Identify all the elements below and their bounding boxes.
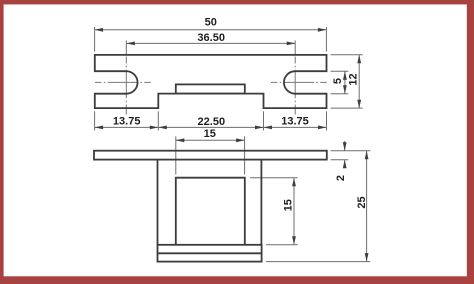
extension lines group — [95, 27, 371, 262]
front view inner box — [176, 178, 245, 245]
front view left wall — [157, 160, 159, 245]
bottom row extension x263.5 — [263, 111, 265, 130]
svg-text:25: 25 — [356, 196, 368, 208]
bottom row extension x94.6 — [94, 111, 96, 130]
dim 15 right extension bottom — [266, 244, 298, 246]
svg-text:13.75: 13.75 — [113, 115, 141, 127]
centerline right slot vertical — [294, 57, 296, 115]
dim 25 extension bottom — [266, 261, 370, 263]
bottom row extension x158.3 — [157, 111, 159, 130]
dim 2 and 25 extension top — [331, 150, 371, 152]
dimension texts rotated — [283, 73, 368, 211]
dim line 36.50 — [126, 42, 295, 44]
front view base block — [158, 245, 262, 262]
top view boss rectangle — [176, 84, 245, 93]
dim line 25 — [366, 151, 368, 262]
top view part outline with slots — [95, 55, 327, 108]
arrows dim 15 top view — [176, 138, 185, 142]
dim 12 extension top — [331, 54, 363, 56]
centerline right slot horizontal — [271, 81, 327, 83]
svg-text:22.50: 22.50 — [198, 116, 226, 128]
svg-text:2: 2 — [335, 175, 347, 181]
dim 50 extension left — [94, 27, 96, 52]
dimension lines group — [95, 30, 367, 262]
front view base mid line — [158, 252, 262, 254]
dim 2 extension bottom — [331, 159, 349, 161]
arrows dim 25 — [365, 151, 369, 160]
arrows dim 13.75 right — [264, 126, 273, 130]
dim line 2 tails — [344, 141, 346, 151]
centerline left slot horizontal — [95, 81, 151, 83]
dim 15 right extension top — [250, 177, 298, 179]
front view right wall — [260, 160, 262, 245]
dim line 12 — [358, 55, 360, 108]
arrows dim 22.50 — [158, 126, 167, 130]
dim line 13.75 / 22.50 / 13.75 — [95, 126, 327, 128]
dim 50 extension right — [325, 27, 327, 52]
svg-text:15: 15 — [283, 199, 295, 211]
dimension texts horizontal — [113, 16, 309, 140]
svg-text:5: 5 — [332, 78, 344, 84]
arrows dim 13.75 left — [95, 126, 104, 130]
dim 5 extension top — [331, 70, 349, 72]
dim 15 extension right — [244, 136, 246, 174]
centerlines group — [95, 57, 327, 115]
arrows dim 5 — [343, 71, 347, 80]
arrowheads group — [95, 28, 369, 262]
dim 15 extension left — [175, 136, 177, 174]
dim line 15 right — [293, 178, 295, 245]
svg-text:12: 12 — [348, 73, 360, 85]
svg-text:50: 50 — [205, 16, 217, 28]
arrows dim 15 right — [292, 178, 296, 187]
dim 36.50 extension left — [125, 41, 127, 56]
front view outline — [94, 151, 327, 262]
svg-text:15: 15 — [204, 128, 216, 140]
dim 12 extension bottom — [331, 107, 363, 109]
top view outline — [95, 55, 327, 108]
dim line 50 — [95, 29, 327, 31]
arrows dim 12 — [357, 55, 361, 64]
arrows dim 36.50 — [126, 42, 135, 46]
dim 5 extension bottom — [331, 93, 349, 95]
front view top plate — [94, 151, 327, 160]
bottom row extension x326.5 — [326, 111, 328, 130]
svg-text:13.75: 13.75 — [281, 115, 309, 127]
arrows dim 2 outside — [343, 142, 347, 151]
svg-text:36.50: 36.50 — [197, 32, 225, 44]
dim line 5 — [344, 71, 346, 94]
centerline left slot vertical — [125, 57, 127, 115]
dim 36.50 extension right — [294, 41, 296, 56]
arrows dim 50 — [95, 28, 104, 32]
dim line 15 top view — [176, 139, 245, 141]
